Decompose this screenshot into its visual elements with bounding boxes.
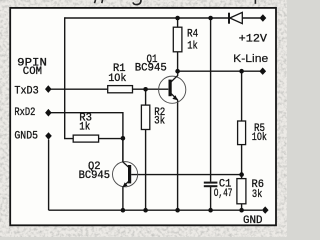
- svg-text:+12V: +12V: [239, 34, 268, 46]
- node R2 on ground rail: [143, 208, 148, 213]
- node R6 on ground rail: [239, 208, 244, 213]
- svg-text:1k: 1k: [79, 121, 90, 133]
- terminal diamonds: [45, 14, 269, 214]
- wire +12V left rail to R3: [65, 17, 74, 138]
- wire Q2 base to divider node: [131, 174, 241, 176]
- wire C1 bottom lead: [210, 187, 212, 210]
- wire R3 to node: [99, 138, 123, 140]
- label R4 value: [187, 29, 199, 53]
- resistor R3: [73, 135, 98, 142]
- transistor Q2: [113, 138, 138, 187]
- terminal +12V: [260, 14, 267, 21]
- resistor R5: [238, 121, 246, 145]
- node divider R5/R6/Q2 base: [239, 172, 244, 177]
- wire GND5 down: [48, 140, 50, 211]
- wire R4 top lead: [177, 18, 179, 27]
- terminal GND: [262, 206, 269, 213]
- resistor R4: [173, 27, 182, 52]
- svg-text:1k: 1k: [187, 41, 198, 53]
- wire K-Line: [178, 70, 260, 72]
- wire bottom ground rail: [49, 209, 262, 211]
- cut-off title text fragments at top edge: [95, 0, 256, 5]
- resistor R1: [108, 86, 133, 93]
- wire diode to +12V terminal: [242, 17, 260, 19]
- wire Q1 emitter down: [177, 100, 179, 210]
- terminal GND5 pin 5: [45, 132, 52, 139]
- wire RxD2 to Q2 collector node: [50, 113, 123, 139]
- schematic white panel with frame: [10, 8, 276, 225]
- wire R5 top lead: [241, 71, 243, 121]
- wire TxD3 to R1: [50, 88, 108, 90]
- node Q2 emitter on ground rail: [121, 208, 126, 213]
- capacitor C1: [204, 183, 218, 187]
- svg-text:RxD2: RxD2: [14, 107, 35, 119]
- wire Q2 emitter down: [122, 187, 124, 210]
- label R2 value: [154, 107, 165, 127]
- label R3 value: [79, 112, 92, 133]
- node C1 rail on +12V rail: [208, 16, 213, 21]
- label 9PIN COM connector: [17, 57, 47, 78]
- node R1/R2/Q1 base: [143, 87, 148, 92]
- svg-text:GND5: GND5: [14, 130, 38, 142]
- node C1 on ground rail: [208, 208, 213, 213]
- label C1 value: [214, 179, 233, 200]
- node Q1 emitter on ground rail: [175, 208, 180, 213]
- label R5 value: [252, 123, 267, 144]
- svg-text:R4: R4: [187, 29, 199, 41]
- wire R4 bottom lead to collector node: [177, 52, 179, 71]
- svg-text:1Ok: 1Ok: [108, 73, 127, 85]
- node RxD2/R3/Q2 collector: [121, 136, 126, 141]
- resistor R6: [237, 179, 246, 204]
- svg-text:TxD3: TxD3: [14, 86, 38, 98]
- node K-Line / R5: [239, 69, 244, 74]
- svg-text:BC945: BC945: [135, 63, 167, 75]
- diode D1: [229, 12, 242, 23]
- svg-text:O,47: O,47: [214, 188, 233, 200]
- label Q1: [135, 54, 167, 75]
- svg-text:3k: 3k: [154, 115, 165, 127]
- wire +12V top rail: [65, 17, 229, 19]
- wire R2 bottom to ground rail: [145, 130, 147, 211]
- wire Q2 collector node down: [122, 138, 124, 162]
- svg-text:3k: 3k: [252, 189, 263, 201]
- wire R1 to Q1 base: [133, 88, 169, 90]
- node R4 top on +12V rail: [175, 16, 180, 21]
- wire C1 rail from top: [210, 18, 212, 182]
- node Q1 collector / K-Line: [175, 69, 180, 74]
- terminal RxD2 pin 2: [45, 109, 52, 117]
- transistor Q1: [159, 71, 186, 103]
- svg-text:COM: COM: [23, 66, 42, 78]
- wire R6 top lead: [241, 175, 243, 179]
- label R1 value: [108, 63, 127, 85]
- svg-text:BC945: BC945: [79, 170, 110, 182]
- terminal K-Line: [259, 68, 266, 75]
- label R6 value: [252, 179, 265, 201]
- label Q2: [79, 161, 110, 182]
- wire R2 top lead: [145, 89, 147, 105]
- svg-text:K-Line: K-Line: [233, 53, 268, 65]
- svg-text:1Ok: 1Ok: [252, 132, 267, 144]
- resistor R2: [141, 105, 149, 129]
- svg-text:GND: GND: [243, 215, 263, 227]
- wire R5 bottom to divider node: [241, 145, 243, 175]
- terminal TxD3 pin 3: [45, 85, 52, 93]
- wire R6 bottom lead: [241, 204, 243, 210]
